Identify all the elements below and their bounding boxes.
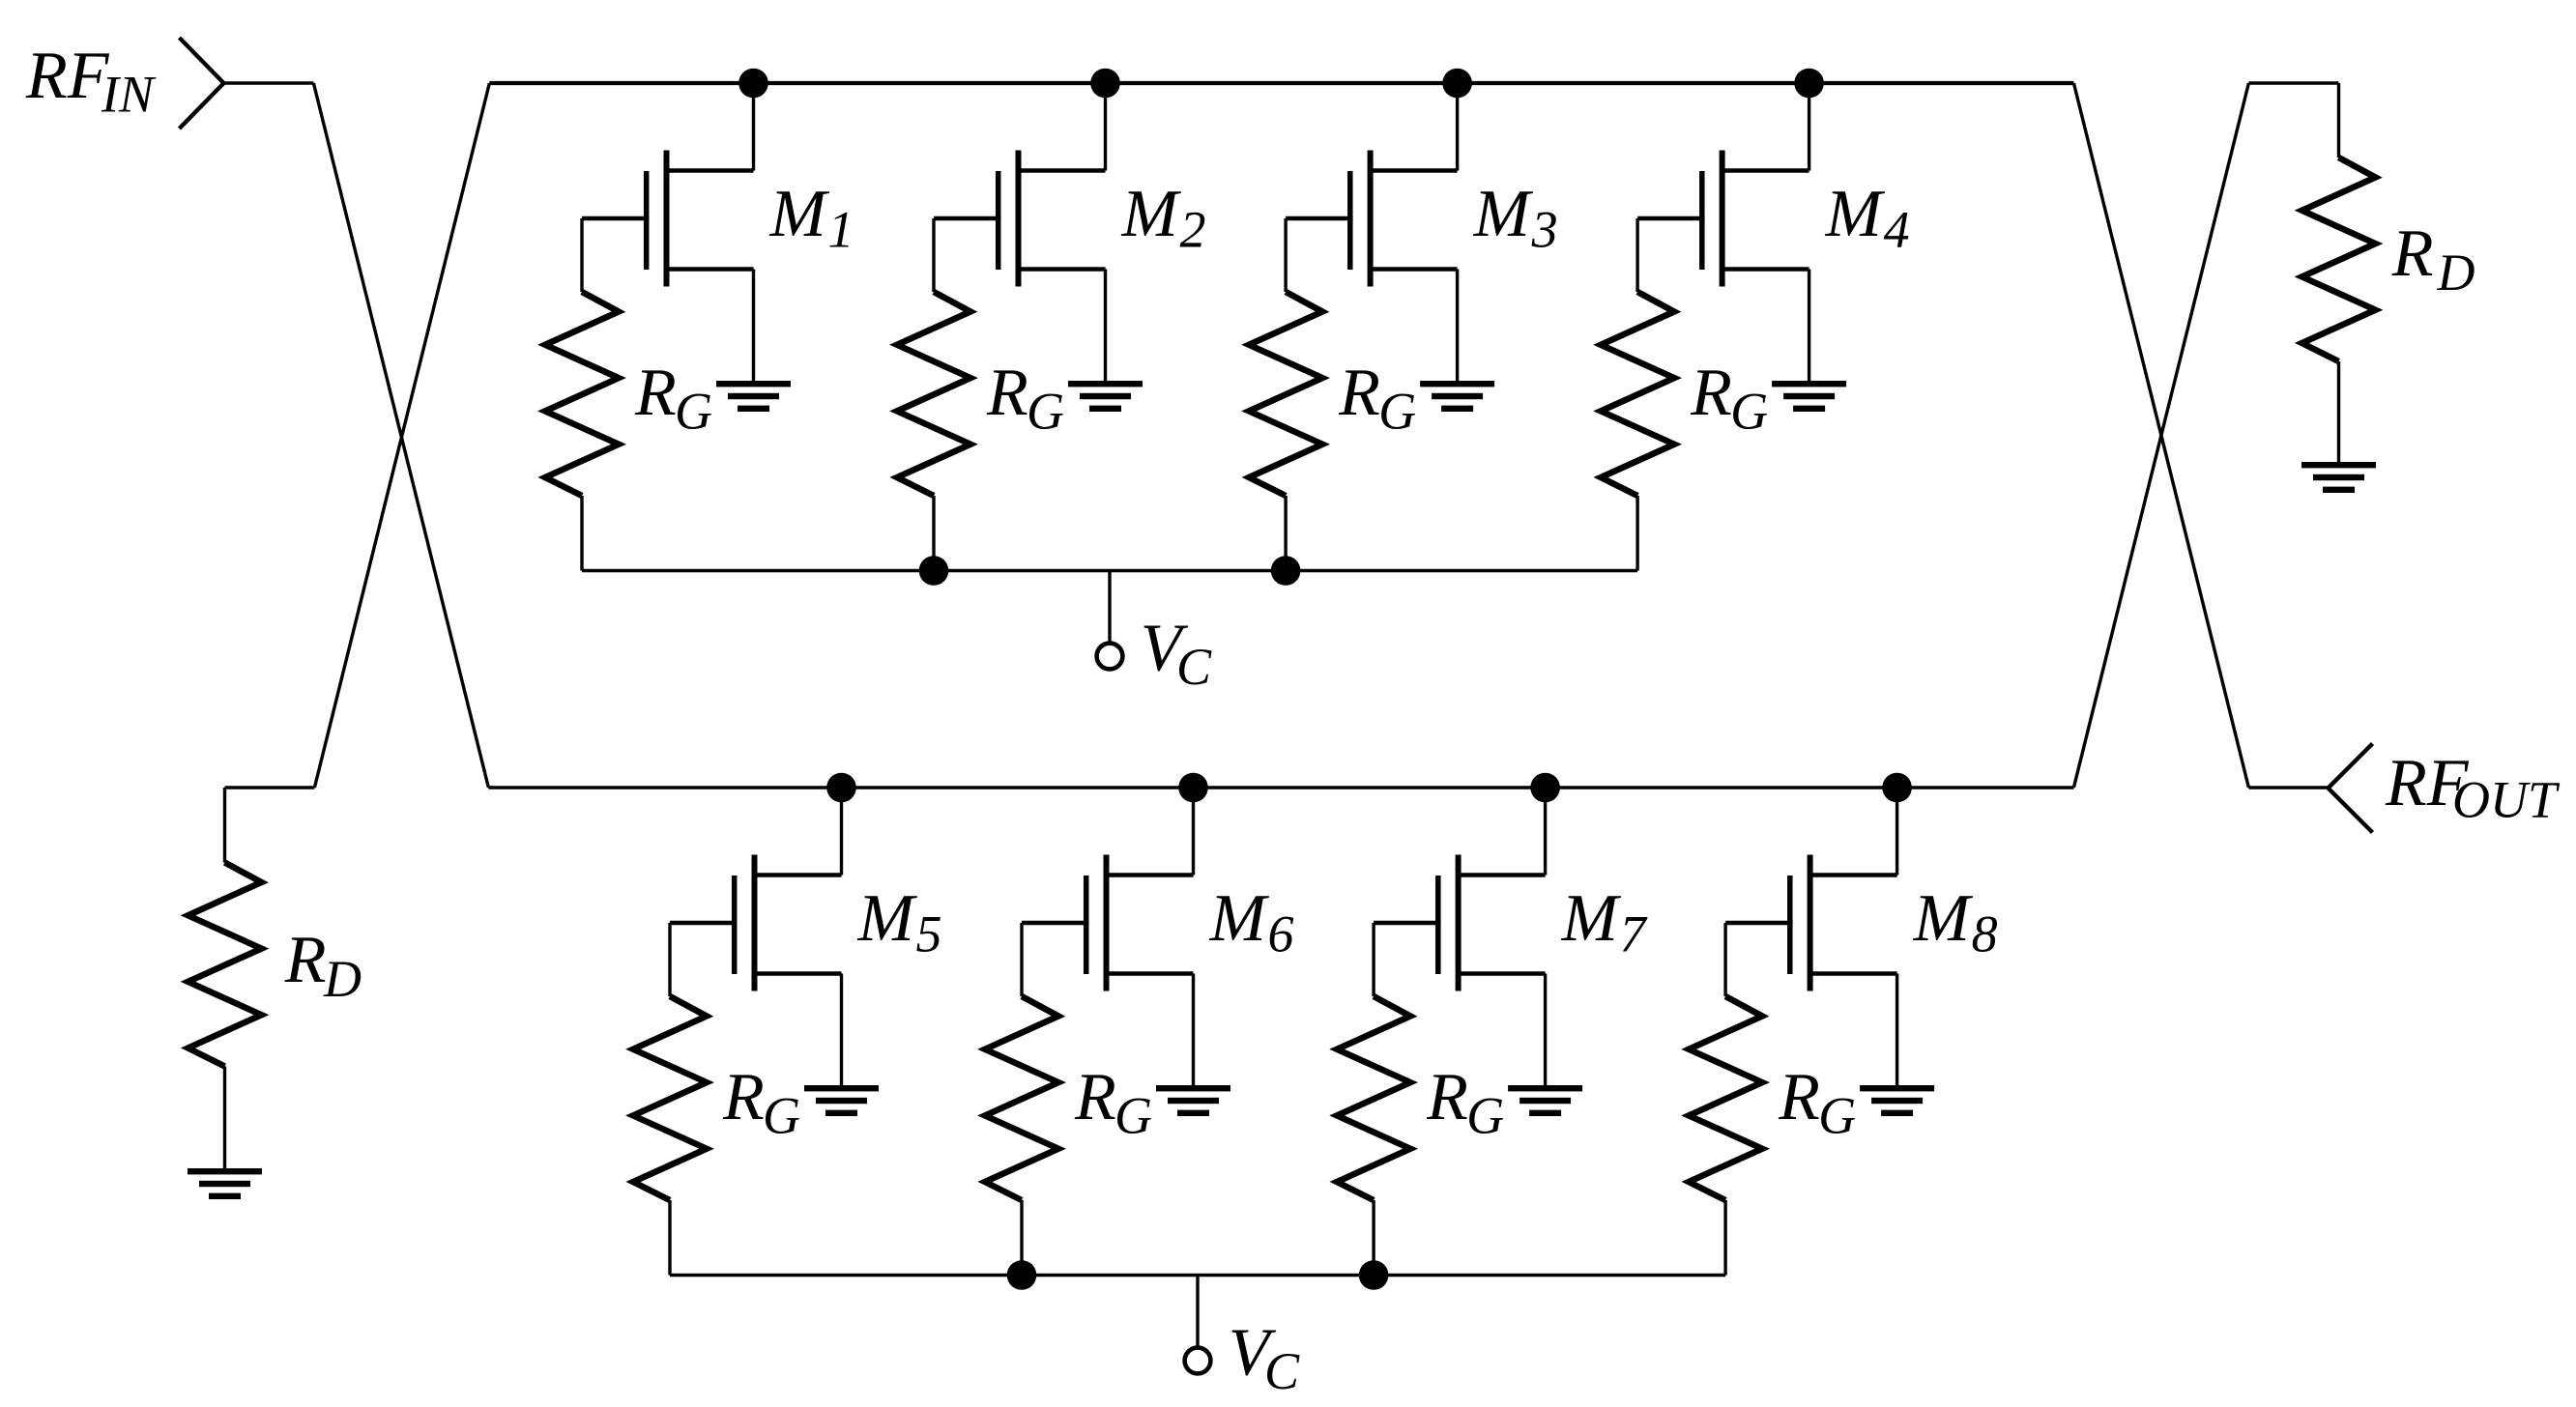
wire gate M5 down (668, 923, 671, 996)
svg-text:R: R (634, 356, 677, 430)
node drain M7 junction dot (1530, 773, 1560, 803)
wire right crossover diagonal (bottom rail to right RD) (2073, 83, 2248, 788)
svg-text:R: R (1426, 1060, 1468, 1134)
wire drain M5 (840, 788, 843, 876)
svg-text:M: M (1209, 881, 1270, 956)
resistor RG (M5) (633, 996, 707, 1200)
svg-text:G: G (763, 1087, 800, 1145)
svg-text:C: C (1264, 1342, 1300, 1400)
ground right RD (2301, 462, 2376, 468)
wire RG (M1) to VC rail (580, 496, 583, 571)
ground M5 (804, 1085, 879, 1091)
svg-text:D: D (2437, 244, 2475, 301)
wire RF_IN to crossover (224, 81, 314, 84)
ground M6 (1156, 1085, 1230, 1091)
svg-text:G: G (1378, 383, 1416, 441)
svg-text:7: 7 (1620, 905, 1648, 963)
svg-text:R: R (722, 1060, 765, 1134)
wire gate M6 down (1020, 923, 1023, 996)
svg-text:R: R (284, 923, 327, 997)
resistor RD left (188, 863, 262, 1067)
wire RG (M6) to VC rail (1020, 1200, 1023, 1276)
svg-text:R: R (1074, 1060, 1116, 1134)
svg-text:R: R (1778, 1060, 1820, 1134)
wire left RD bottom lead (223, 1067, 226, 1169)
wire right crossover diagonal (top rail to RF_OUT) (2073, 83, 2248, 788)
wire RG (M2) to VC rail (932, 496, 935, 571)
resistor RG (M6) (985, 996, 1058, 1200)
node top VC rail junction (M2 RG) (919, 556, 949, 586)
svg-text:3: 3 (1531, 201, 1558, 259)
svg-text:4: 4 (1884, 201, 1910, 259)
wire right RD bottom lead (2337, 361, 2340, 462)
wire drain M4 (1808, 83, 1810, 171)
svg-text:D: D (323, 950, 362, 1008)
ground left RD (188, 1168, 262, 1174)
wire RG (M4) to VC rail (1635, 496, 1638, 571)
svg-text:G: G (675, 383, 712, 441)
wire gate M2 down (932, 218, 935, 292)
resistor RD right (2302, 158, 2376, 361)
wire input crossover diagonal (RF_IN to bottom rail) (313, 83, 488, 788)
wire top VC stub (1108, 571, 1111, 644)
terminal VC bottom circle (1185, 1348, 1211, 1374)
svg-text:1: 1 (828, 201, 854, 259)
terminal RF_OUT port arrow (2329, 744, 2373, 789)
transistor M3 (NMOS) (1370, 168, 1458, 173)
wire right RD top lead (2337, 83, 2340, 158)
svg-text:2: 2 (1180, 201, 1206, 259)
wire bottom rail to RF_OUT (2248, 786, 2328, 789)
terminal RF_IN port arrow (180, 38, 224, 83)
wire drain M2 (1104, 83, 1107, 171)
svg-text:G: G (1466, 1087, 1504, 1145)
wire drain M7 (1544, 788, 1547, 876)
svg-text:M: M (1825, 177, 1886, 251)
svg-text:OUT: OUT (2452, 771, 2561, 829)
svg-text:8: 8 (1972, 905, 1998, 963)
wire RG (M8) to VC rail (1723, 1200, 1726, 1276)
resistor RG (M7) (1337, 996, 1410, 1200)
svg-text:RF: RF (25, 39, 110, 113)
wire bottom VC rail (670, 1274, 1725, 1277)
svg-text:R: R (986, 356, 1028, 430)
ground M1 (716, 381, 791, 387)
resistor RG (M4) (1601, 292, 1674, 496)
svg-text:G: G (1114, 1087, 1152, 1145)
wire bottom rail (488, 786, 2073, 789)
resistor RG (M2) (897, 292, 970, 496)
svg-text:M: M (1561, 881, 1622, 956)
svg-text:G: G (1730, 383, 1768, 441)
resistor RG (M1) (545, 292, 619, 496)
svg-text:IN: IN (101, 65, 157, 123)
ground M8 (1860, 1085, 1934, 1091)
resistor RG (M8) (1689, 996, 1762, 1200)
resistor RG (M3) (1249, 292, 1322, 496)
ground M7 (1508, 1085, 1582, 1091)
wire RG (M5) to VC rail (668, 1200, 671, 1276)
transistor M4 (NMOS) (1722, 168, 1809, 173)
svg-text:M: M (769, 177, 830, 251)
node bottom VC rail junction (M7 RG) (1359, 1260, 1389, 1290)
wire drain M3 (1456, 83, 1459, 171)
wire source M6 to ground (1192, 974, 1195, 1086)
svg-text:R: R (2391, 216, 2434, 291)
terminal VC top circle (1097, 644, 1123, 670)
wire top VC rail (582, 569, 1637, 572)
wire gate M4 down (1635, 218, 1638, 292)
wire drain M6 (1192, 788, 1195, 876)
svg-text:C: C (1176, 638, 1212, 696)
svg-text:M: M (1913, 881, 1974, 956)
transistor M2 (NMOS) (1018, 168, 1106, 173)
node drain M8 junction dot (1882, 773, 1912, 803)
transistor M7 (NMOS) (1458, 873, 1546, 877)
svg-text:M: M (1121, 177, 1182, 251)
transistor M6 (NMOS) (1106, 873, 1194, 877)
svg-text:R: R (1338, 356, 1380, 430)
node drain M5 junction dot (826, 773, 856, 803)
node top VC rail junction (M3 RG) (1271, 556, 1301, 586)
node drain M4 junction dot (1794, 69, 1824, 99)
transistor M5 (NMOS) (754, 873, 842, 877)
node drain M6 junction dot (1178, 773, 1208, 803)
wire bottom VC stub (1196, 1276, 1199, 1348)
svg-text:G: G (1027, 383, 1064, 441)
wire source M8 to ground (1896, 974, 1898, 1086)
wire source M2 to ground (1104, 270, 1107, 382)
wire RG (M7) to VC rail (1372, 1200, 1375, 1276)
wire left RD top lead (223, 788, 226, 863)
wire drain M8 (1896, 788, 1898, 876)
wire gate M7 down (1372, 923, 1375, 996)
wire source M3 to ground (1456, 270, 1459, 382)
transistor M8 (NMOS) (1809, 873, 1897, 877)
node drain M3 junction dot (1442, 69, 1472, 99)
wire source M5 to ground (840, 974, 843, 1086)
wire drain M1 (752, 83, 755, 171)
svg-text:M: M (1473, 177, 1534, 251)
wire source M4 to ground (1808, 270, 1810, 382)
ground M3 (1420, 381, 1494, 387)
wire gate M3 down (1284, 218, 1287, 292)
wire gate M8 down (1723, 923, 1726, 996)
wire top-right stub to RD (2248, 81, 2338, 84)
wire top rail (489, 81, 2073, 85)
node drain M1 junction dot (738, 69, 768, 99)
wire source M1 to ground (752, 270, 755, 382)
ground M4 (1772, 381, 1846, 387)
wire bottom-left stub to RD (225, 786, 315, 789)
wire source M7 to ground (1544, 974, 1547, 1086)
node bottom VC rail junction (M6 RG) (1007, 1260, 1037, 1290)
transistor M1 (NMOS) (666, 168, 754, 173)
node drain M2 junction dot (1090, 69, 1120, 99)
ground M2 (1068, 381, 1143, 387)
wire RG (M3) to VC rail (1284, 496, 1287, 571)
svg-text:6: 6 (1268, 905, 1294, 963)
svg-text:G: G (1818, 1087, 1856, 1145)
wire left crossover diagonal (top rail to left RD) (314, 83, 489, 788)
svg-text:M: M (857, 881, 918, 956)
wire gate M1 down (580, 218, 583, 292)
svg-text:R: R (1690, 356, 1732, 430)
svg-text:5: 5 (916, 905, 942, 963)
